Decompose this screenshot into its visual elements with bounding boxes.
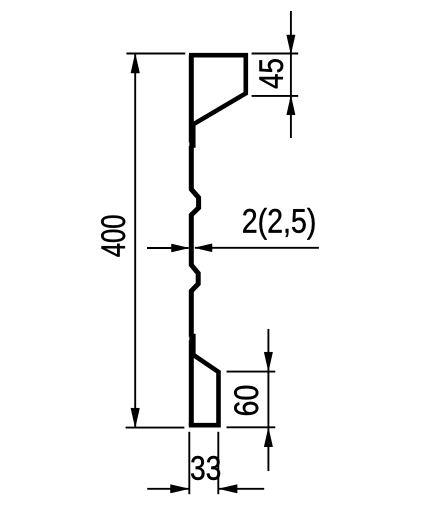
dimension 45: extension line bottom bbox=[252, 95, 299, 97]
dimension 33: extension line right bbox=[217, 432, 219, 494]
dimension 33: left dimension line bbox=[147, 488, 188, 490]
dimension 2(2,5): right arrowhead pointing left bbox=[195, 244, 212, 252]
dimension 60: extension line bottom bbox=[227, 426, 276, 428]
dimension 45: dimension line bbox=[290, 11, 292, 138]
dimension 2(2,5): right leader line bbox=[195, 247, 319, 249]
profile web (vertical sheet with two corrugation bumps) bbox=[191, 55, 198, 425]
dimension 33: label bbox=[191, 456, 220, 480]
bottom flange sheet-edge overlap segment bbox=[193, 334, 196, 356]
dimension 2(2,5): left arrowhead pointing right bbox=[172, 244, 189, 252]
dimension 400: arrowhead up bbox=[131, 54, 140, 73]
dimension 400: label bbox=[101, 216, 125, 257]
dimension 45: label bbox=[259, 59, 283, 88]
dimension 400: arrowhead down bbox=[131, 408, 140, 427]
bottom flange outline bbox=[189, 354, 219, 426]
dimension 33: extension line left bbox=[188, 432, 190, 494]
dimension 60: dimension line bbox=[267, 329, 269, 471]
dimension 33: left arrowhead pointing right bbox=[171, 485, 189, 493]
dimension 400: dimension line bbox=[134, 54, 136, 427]
sheet edge notch (bottom) bbox=[187, 337, 189, 341]
dimension 60: extension line top bbox=[227, 371, 276, 373]
dimension 33: right dimension line bbox=[219, 488, 264, 490]
dimension 33: right arrowhead pointing left bbox=[219, 485, 237, 493]
dimension 400: extension line top bbox=[126, 53, 185, 55]
dimension 2(2,5): left leader line bbox=[147, 247, 189, 249]
dimension 400: extension line bottom bbox=[126, 427, 185, 429]
dimension 45: arrowhead up (from below) bbox=[287, 96, 295, 115]
dimension 45: extension line top bbox=[252, 53, 299, 55]
dimension 45: arrowhead down (from above) bbox=[287, 35, 295, 54]
dimension 60: arrowhead down (from above) bbox=[264, 352, 272, 371]
dimension 2(2,5): label bbox=[243, 208, 314, 240]
top flange outline bbox=[189, 55, 246, 125]
dimension 60: arrowhead up (from below) bbox=[264, 428, 272, 447]
dimension 60: label bbox=[234, 386, 258, 415]
top flange sheet-edge overlap segment bbox=[193, 124, 196, 148]
sheet edge notch (top) bbox=[187, 142, 189, 146]
